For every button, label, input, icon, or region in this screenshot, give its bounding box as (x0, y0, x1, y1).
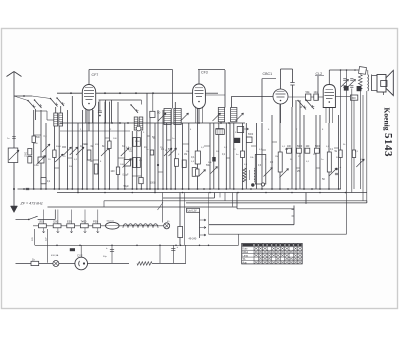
svg-text:CF7: CF7 (92, 73, 99, 77)
svg-text:50µF: 50µF (124, 186, 130, 188)
svg-text:2M: 2M (285, 149, 288, 151)
svg-text:Ua 6,3V: Ua 6,3V (188, 210, 197, 213)
svg-text:CBC1: CBC1 (263, 72, 273, 76)
svg-text:5000: 5000 (248, 134, 254, 136)
svg-text:0,1µF: 0,1µF (123, 175, 130, 177)
svg-text:CY2: CY2 (77, 253, 83, 257)
svg-text:1M: 1M (275, 156, 278, 158)
svg-text:Skalenl.: Skalenl. (107, 221, 115, 223)
svg-text:100: 100 (110, 170, 115, 173)
svg-text:ZF = 473 kHz: ZF = 473 kHz (20, 202, 43, 206)
svg-text:50: 50 (157, 111, 161, 115)
svg-text:5000: 5000 (315, 146, 321, 148)
svg-text:4V0,3A: 4V0,3A (51, 254, 59, 257)
svg-text:1000: 1000 (34, 165, 40, 167)
svg-text:100Ω: 100Ω (150, 183, 156, 185)
svg-text:1M: 1M (186, 151, 189, 153)
svg-text:0,1: 0,1 (191, 156, 195, 159)
svg-text:7#50: 7#50 (81, 220, 87, 224)
svg-text:10n: 10n (314, 91, 319, 94)
svg-text:3000: 3000 (56, 146, 62, 148)
svg-text:2000: 2000 (131, 146, 133, 152)
svg-text:CL2: CL2 (316, 72, 323, 76)
svg-text:P50: P50 (93, 220, 98, 224)
svg-text:Koenig: Koenig (383, 108, 392, 131)
svg-text:1000: 1000 (26, 151, 28, 157)
svg-text:2000: 2000 (135, 141, 141, 143)
svg-text:49-240: 49-240 (189, 238, 197, 241)
svg-text:5000: 5000 (297, 146, 303, 148)
svg-text:U50: U50 (39, 220, 44, 224)
svg-text:5143: 5143 (382, 133, 394, 157)
svg-text:1M: 1M (184, 154, 187, 156)
svg-text:CF3: CF3 (201, 71, 208, 75)
